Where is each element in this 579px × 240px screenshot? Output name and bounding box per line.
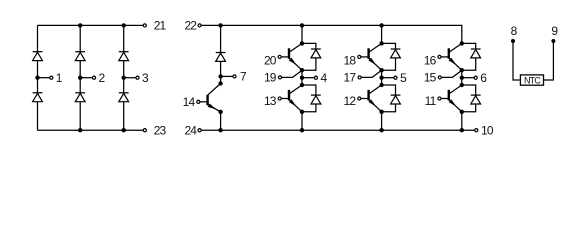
svg-text:19: 19 xyxy=(264,71,277,85)
wire: tap to terminal 7 xyxy=(221,75,233,77)
node leg 6 emitter junction dot xyxy=(460,68,464,72)
junction top rail / inverter leg 5 xyxy=(379,23,383,27)
wire: terminal 8 to NTC xyxy=(513,41,520,80)
wire: Q14 emitter to bottom rail xyxy=(220,112,222,130)
wire: tap to terminal 4 xyxy=(302,77,314,79)
wire: lower freewheel diode branch, leg 6 xyxy=(462,85,476,112)
wire: leg 6 phase vertical xyxy=(461,70,463,85)
diode upper rectifier, leg 2 xyxy=(75,52,85,61)
thermistor NTC box xyxy=(520,75,543,85)
junction bottom rail / chopper column xyxy=(218,128,222,132)
node leg 4 lower emitter junction dot xyxy=(300,110,304,114)
wire: leg 4 drop from top rail xyxy=(301,25,303,43)
node leg 6 upper collector junction dot xyxy=(460,41,464,45)
node leg 4 upper collector junction dot xyxy=(300,41,304,45)
wire: rectifier leg 1 vertical xyxy=(37,25,39,130)
wire: tap to terminal 1 xyxy=(38,77,50,79)
wire: upper freewheel diode branch, leg 4 xyxy=(302,43,316,70)
node 7 junction dot xyxy=(218,74,222,78)
transistor Q14 brake chopper IGBT xyxy=(197,83,221,111)
wire: leg 4 phase vertical xyxy=(301,70,303,85)
node leg 5 lower emitter junction dot xyxy=(379,110,383,114)
wire: tap to terminal 6 xyxy=(462,77,474,79)
diode upper freewheel, leg 6 xyxy=(471,49,481,58)
wire: aux emitter 15 to emitter node xyxy=(442,70,462,77)
node leg 4 lower collector junction dot xyxy=(300,83,304,87)
terminal 8 dot xyxy=(511,39,515,43)
diode lower rectifier, leg 1 xyxy=(33,93,43,102)
svg-text:16: 16 xyxy=(424,54,437,68)
diode upper freewheel, leg 4 xyxy=(311,49,321,58)
wire: rectifier bottom rail (to terminal 23) xyxy=(38,129,144,131)
diode upper rectifier, leg 3 xyxy=(119,52,129,61)
wire: inverter bottom rail (to terminal 10) xyxy=(201,129,474,131)
svg-text:13: 13 xyxy=(264,94,277,108)
terminal 3 circle xyxy=(136,76,139,79)
wire: aux emitter 17 to emitter node xyxy=(361,70,381,77)
diode upper rectifier, leg 1 xyxy=(33,52,43,61)
transistor Q16 upper IGBT, leg 6 xyxy=(438,43,462,70)
junction bottom rail / leg 5 xyxy=(379,128,383,132)
wire: leg 6 emitter to bottom rail xyxy=(461,112,463,130)
junction top rail / chopper column xyxy=(218,23,222,27)
wire: node 7 down to chopper collector node xyxy=(220,76,222,83)
node phase 6 junction dot xyxy=(460,76,464,80)
terminal 24 circle xyxy=(198,129,201,132)
diode lower freewheel, leg 5 xyxy=(391,95,401,104)
diode D7 chopper freewheel xyxy=(216,53,226,62)
wire: leg 4 emitter to bottom rail xyxy=(301,112,303,130)
svg-text:15: 15 xyxy=(424,71,437,85)
node AC input 1 junction dot xyxy=(35,76,39,80)
svg-text:NTC: NTC xyxy=(524,75,541,85)
terminal 22 circle xyxy=(198,24,201,27)
wire: upper freewheel diode branch, leg 6 xyxy=(462,43,476,70)
wire: upper freewheel diode branch, leg 5 xyxy=(382,43,396,70)
wire: rectifier leg 3 vertical xyxy=(123,25,125,130)
svg-text:10: 10 xyxy=(481,124,494,138)
node leg 6 lower emitter junction dot xyxy=(460,110,464,114)
node leg 4 emitter junction dot xyxy=(300,68,304,72)
wire: rectifier leg 2 vertical xyxy=(79,25,81,130)
wire: leg 5 phase vertical xyxy=(381,70,383,85)
transistor Q13 lower IGBT, leg 4 xyxy=(278,85,302,112)
terminal 7 circle xyxy=(233,75,236,78)
junction top rail / rectifier leg 3 xyxy=(122,23,126,27)
svg-text:12: 12 xyxy=(344,94,357,108)
diode upper freewheel, leg 5 xyxy=(391,49,401,58)
terminal 2 circle xyxy=(92,76,95,79)
terminal 17 circle xyxy=(358,76,361,79)
wire: lower freewheel diode branch, leg 4 xyxy=(302,85,316,112)
svg-text:22: 22 xyxy=(184,19,197,33)
terminal 19 circle xyxy=(278,76,281,79)
wire: aux emitter 19 to emitter node xyxy=(282,70,302,77)
transistor Q20 upper IGBT, leg 4 xyxy=(278,43,302,70)
node leg 6 lower collector junction dot xyxy=(460,83,464,87)
terminal 10 circle xyxy=(475,129,478,132)
svg-text:20: 20 xyxy=(264,54,277,68)
junction bottom rail / rectifier leg 3 xyxy=(122,128,126,132)
wire: chopper column upper vertical xyxy=(220,25,222,76)
terminal 21 circle xyxy=(143,24,146,27)
svg-text:17: 17 xyxy=(344,71,357,85)
wire: lower freewheel diode branch, leg 5 xyxy=(382,85,396,112)
svg-text:11: 11 xyxy=(425,94,437,108)
junction bottom rail / leg 4 xyxy=(300,128,304,132)
wire: rectifier top rail (to terminal 21) xyxy=(38,24,144,26)
svg-text:21: 21 xyxy=(154,19,167,33)
transistor Q11 lower IGBT, leg 6 xyxy=(438,85,462,112)
junction top rail / inverter leg 4 xyxy=(300,23,304,27)
node leg 5 emitter junction dot xyxy=(379,68,383,72)
terminal 4 circle xyxy=(314,76,317,79)
terminal 15 circle xyxy=(438,76,441,79)
node AC input 3 junction dot xyxy=(122,76,126,80)
junction bottom rail / rectifier leg 2 xyxy=(78,128,82,132)
transistor Q12 lower IGBT, leg 5 xyxy=(358,85,382,112)
node phase 5 junction dot xyxy=(379,76,383,80)
wire: leg 5 drop from top rail xyxy=(381,25,383,43)
Q14 emitter junction dot xyxy=(218,110,222,114)
transistor Q18 upper IGBT, leg 5 xyxy=(358,43,382,70)
diode lower rectifier, leg 3 xyxy=(119,93,129,102)
wire: tap to terminal 5 xyxy=(382,77,394,79)
node phase 4 junction dot xyxy=(300,76,304,80)
svg-text:24: 24 xyxy=(184,124,197,138)
terminal 6 circle xyxy=(474,76,477,79)
terminal 23 circle xyxy=(143,129,146,132)
svg-text:23: 23 xyxy=(154,124,167,138)
wire: leg 5 emitter to bottom rail xyxy=(381,112,383,130)
node leg 5 upper collector junction dot xyxy=(379,41,383,45)
wire: tap to terminal 2 xyxy=(80,77,92,79)
diode lower rectifier, leg 2 xyxy=(75,93,85,102)
terminal 5 circle xyxy=(394,76,397,79)
svg-text:18: 18 xyxy=(344,54,357,68)
wire: terminal 9 to NTC xyxy=(544,41,553,80)
node leg 5 lower collector junction dot xyxy=(379,83,383,87)
node AC input 2 junction dot xyxy=(78,76,82,80)
wire: tap to terminal 3 xyxy=(124,77,136,79)
junction top rail / rectifier leg 2 xyxy=(78,23,82,27)
svg-text:14: 14 xyxy=(183,95,196,109)
diode lower freewheel, leg 4 xyxy=(311,95,321,104)
junction bottom rail / leg 6 xyxy=(460,128,464,132)
terminal 1 circle xyxy=(50,76,53,79)
wire: inverter top rail xyxy=(201,25,462,43)
diode lower freewheel, leg 6 xyxy=(471,95,481,104)
chopper collector junction dot xyxy=(218,81,222,85)
terminal 9 dot xyxy=(551,39,555,43)
